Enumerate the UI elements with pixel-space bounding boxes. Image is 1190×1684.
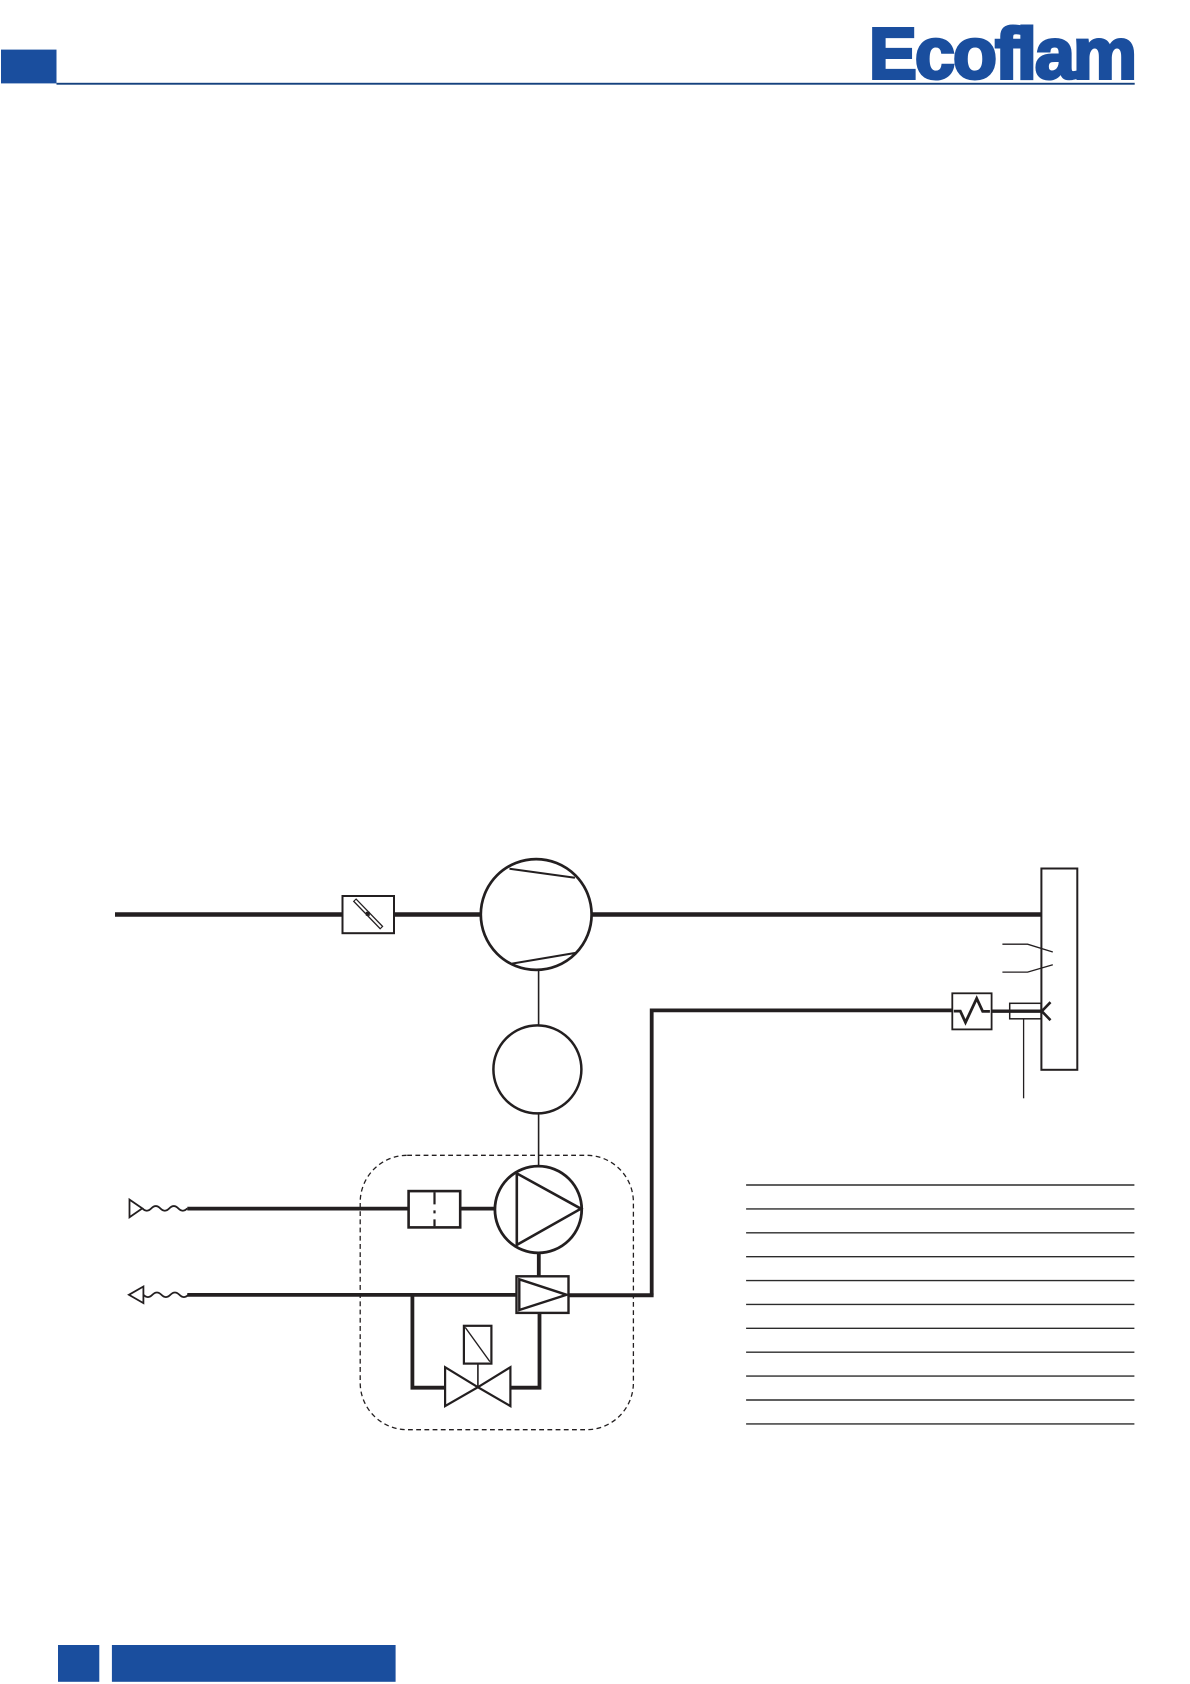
svg-text:Ecoflam: Ecoflam xyxy=(869,15,1135,95)
